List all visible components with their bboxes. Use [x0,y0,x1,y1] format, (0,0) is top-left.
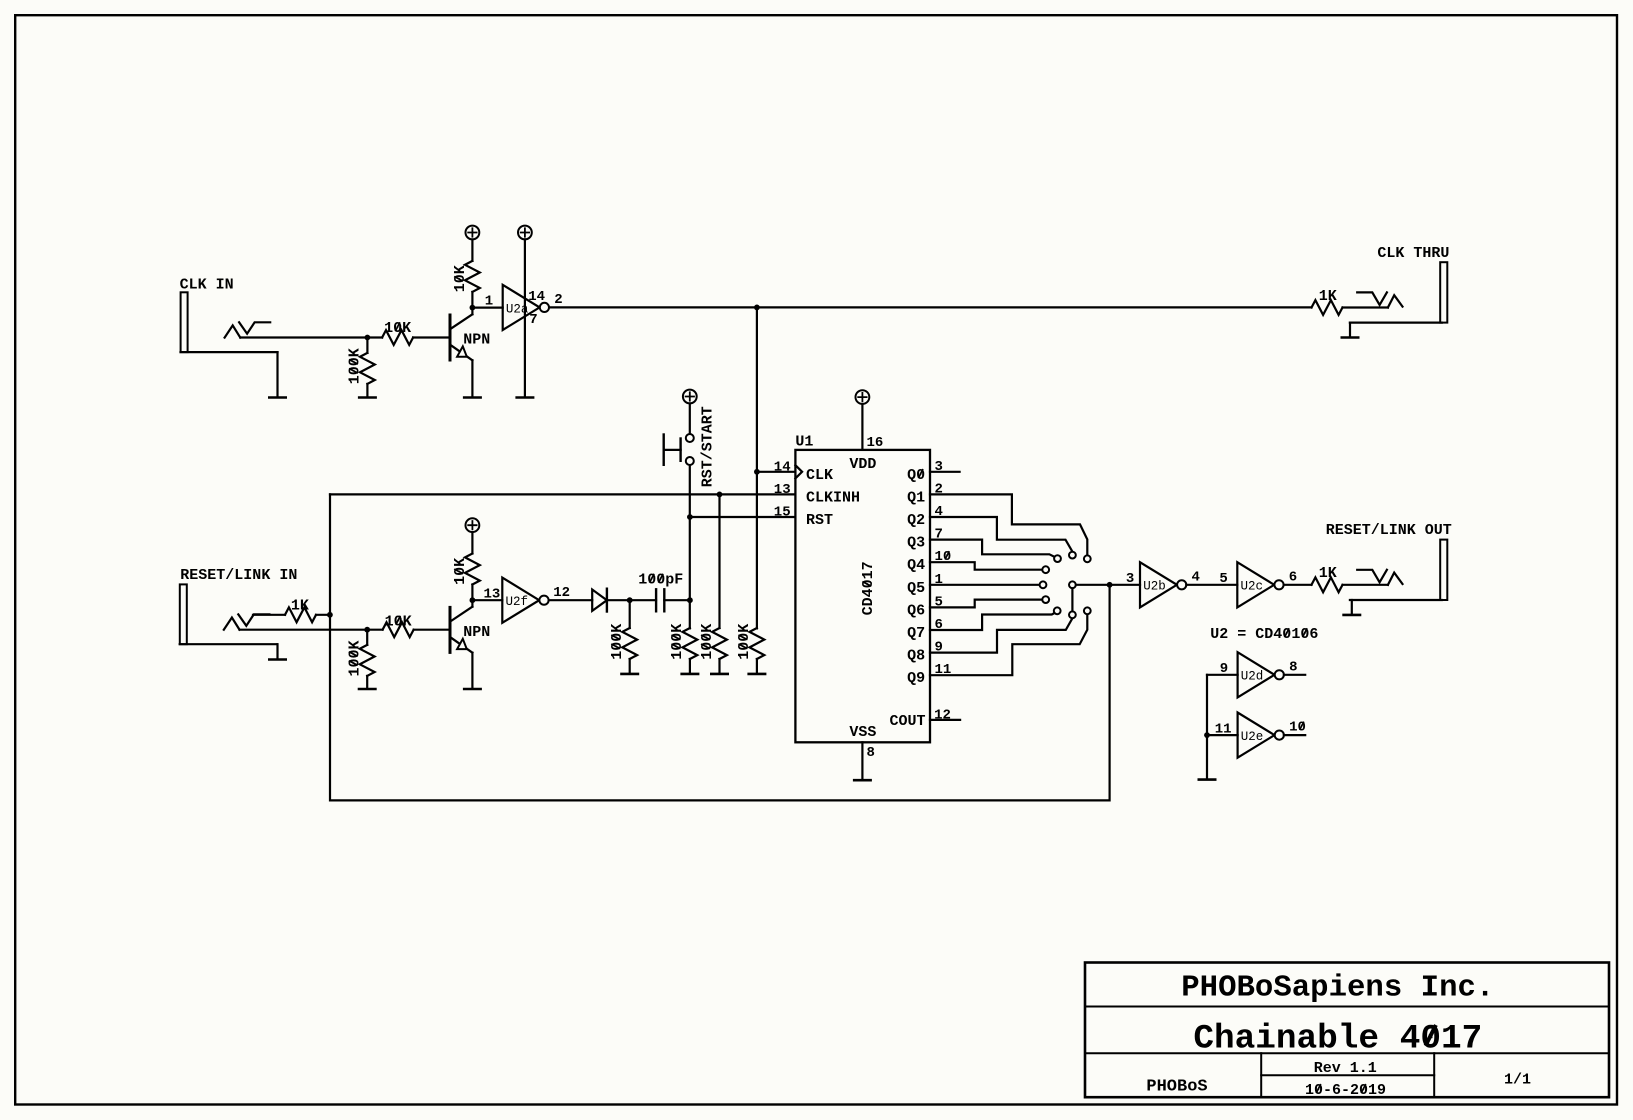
wire cap to RST node [664,599,690,601]
svg-text:Chainable 4017: Chainable 4017 [1193,1019,1482,1058]
svg-text:U2c: U2c [1241,580,1264,594]
svg-text:100K: 100K [347,348,364,384]
wire Q6 to pad [930,600,1042,608]
resistor 10K pullup (Q1 collector) [471,239,473,261]
wire Q8 to pad [930,618,1072,652]
svg-text:PHOBoSapiens Inc.: PHOBoSapiens Inc. [1181,971,1494,1006]
svg-text:100K: 100K [699,624,716,660]
svg-text:12: 12 [934,707,951,723]
op-amp U2c inverter [1237,562,1283,607]
junction switch/RST [687,514,693,520]
wire Q0 stub [930,471,960,473]
resistor 100K (CLKINH pulldown) [718,494,720,628]
junction CLK net to U1 clock branch [754,305,760,311]
node pad Q2 [1069,552,1076,559]
U1 pin 5 Q6 label [907,602,925,619]
wire select pad to U2b input [1076,584,1140,586]
svg-text:6: 6 [1289,569,1297,585]
wire Q2 emitter to ground [471,653,473,688]
switch S1 RST/START pushbutton [664,434,694,465]
connector J1 CLK IN jack [181,292,188,352]
wire Q1 to pad row [930,494,1087,555]
U1 clock wedge pin 14 [795,465,802,478]
junction node CLK-IN/100K [365,335,371,341]
wire U2d input [1207,674,1238,676]
wire CLK stub to U1 pin 14 [757,471,796,473]
wire Q5 to pad [930,584,1040,586]
svg-text:RST/START: RST/START [699,406,716,487]
svg-text:CD4017: CD4017 [860,561,877,615]
svg-text:PHOBoS: PHOBoS [1146,1077,1207,1096]
junction select/feedback [1107,582,1113,588]
svg-text:3: 3 [1126,571,1134,587]
resistor 100K (diode pulldown) [629,600,631,628]
svg-text:U2d: U2d [1241,670,1264,684]
junction U2e input [1204,732,1210,738]
U1 pin 1 Q5 label [907,580,925,597]
ground (RESET/LINK IN sleeve) [269,658,285,661]
op-amp U2b inverter [1140,562,1186,607]
svg-text:7: 7 [529,312,537,328]
wire RST to U1 pin 15 [690,516,796,518]
wire spare-gate inputs to ground [1206,675,1208,779]
svg-text:VDD: VDD [849,456,876,473]
wire diode to cap [607,599,656,601]
svg-text:Q4: Q4 [907,557,925,574]
svg-text:Q2: Q2 [907,512,925,529]
svg-text:Q3: Q3 [907,535,925,552]
svg-text:RST: RST [806,512,833,529]
connector J2 CLK THRU jack [1440,262,1447,322]
wire Q4 to pad [930,562,1042,570]
junction node R-IN/100K [364,627,370,633]
wire U2e output stub [1284,734,1305,736]
node pad select-bottom [1069,611,1076,618]
junction cap/RST rail [687,597,693,603]
ground (100K CLK IN) [359,396,375,399]
junction 1K to feedback rail [327,612,333,618]
svg-text:CLK IN: CLK IN [180,276,234,293]
power +V (U2a pin 14) [518,226,532,240]
title text sheet [1504,1072,1531,1089]
wire switch to RST rail / 100K [689,465,691,628]
wire Q3 to pad row [930,540,1055,557]
svg-text:CLKINH: CLKINH [806,489,860,506]
U1 power pin 8 VSS [861,742,863,779]
svg-text:100K: 100K [609,624,626,660]
wire U2a power pin 14 to ground pin 7 [524,239,526,396]
svg-text:U2 = CD40106: U2 = CD40106 [1210,626,1318,643]
node pad select-top [1069,581,1076,588]
wire CLK branch down to U1 CLK / 100K [756,307,758,628]
svg-text:VSS: VSS [849,724,876,741]
wire U2d output stub [1284,674,1305,676]
svg-text:Rev 1.1: Rev 1.1 [1314,1060,1377,1077]
ground (CLK THRU sleeve) [1342,336,1358,339]
ground (RESET/LINK OUT sleeve) [1344,614,1360,617]
svg-text:8: 8 [1289,659,1297,675]
U1 pin 6 Q7 label [907,625,925,642]
node pad Q7 [1054,607,1061,614]
node pad Q1 [1084,555,1091,562]
U1 pin 11 Q9 label [907,670,925,687]
wire Q7 to pad [930,613,1055,630]
junction CLKINH/100K [717,492,723,498]
node pad Q5 [1040,581,1047,588]
power +V (10K pullup bottom) [466,518,480,532]
op-amp U2a inverter [503,285,549,330]
svg-text:2: 2 [554,292,562,308]
svg-text:100K: 100K [347,640,364,676]
svg-text:COUT: COUT [889,713,925,730]
op-amp U2e inverter [1238,713,1284,758]
resistor 100K (CLK IN pulldown) [360,353,375,384]
ground (U2a pin 7) [517,396,533,399]
svg-text:Q9: Q9 [907,670,925,687]
U1 pin 12 COUT stub [930,719,960,721]
wire U2c out to 1K [1284,584,1312,586]
wire J4 sleeve to ground [1351,600,1353,614]
wire node to U2a input [472,307,502,309]
U1 pin 4 Q2 label [907,512,925,529]
node pad Q9 [1084,607,1091,614]
svg-text:12: 12 [553,585,570,601]
wire Q1 collector to node [471,308,473,315]
svg-text:Q6: Q6 [907,602,925,619]
resistor 1K (RESET/LINK OUT) [1312,577,1343,592]
capacitor C1 100pF [656,589,664,611]
ground (Q1 emitter) [464,396,480,399]
junction diode/100K [627,597,633,603]
svg-text:15: 15 [774,505,791,521]
wire U2f output to diode [549,599,593,601]
svg-text:100K: 100K [669,624,686,660]
transistor Q1 NPN [450,314,472,360]
wire select jumper [1071,588,1073,611]
ground (U1 VSS) [854,779,870,782]
svg-text:Q1: Q1 [907,489,925,506]
ground (100K R-IN) [359,688,375,691]
wire U2b out to U2c in [1186,584,1237,586]
feedback loop rail left/bottom/right [330,494,1110,800]
svg-text:NPN: NPN [463,332,490,349]
ground (Q2 emitter) [464,688,480,691]
svg-text:U2b: U2b [1143,580,1166,594]
svg-text:1K: 1K [1319,565,1337,582]
svg-text:CLK THRU: CLK THRU [1377,245,1449,262]
svg-text:1K: 1K [291,598,309,615]
junction node Q2 collector / U2f input [470,597,476,603]
title text company [1181,971,1494,1006]
svg-text:16: 16 [867,435,884,451]
junction node Q1 collector / U2a input [470,305,476,311]
ground (spare gates) [1199,778,1215,781]
resistor 10K (Q1 base) [382,330,413,345]
svg-text:NPN: NPN [463,624,490,641]
node pad Q3 [1054,555,1061,562]
svg-text:U2e: U2e [1241,730,1264,744]
svg-text:U2f: U2f [506,595,529,609]
svg-text:1K: 1K [1319,288,1337,305]
svg-text:13: 13 [483,586,500,602]
resistor 100K (R-IN pulldown) [360,645,375,676]
svg-text:Q5: Q5 [907,580,925,597]
junction CLK branch/pin14 [754,469,760,475]
title block frame [1085,963,1609,1098]
ground (100K CLKINH) [711,673,727,676]
ground (100K diode) [622,673,638,676]
title text project [1193,1019,1482,1058]
wire +V to switch [689,403,691,433]
node pad Q4 [1042,566,1049,573]
svg-text:13: 13 [774,482,791,498]
U1 pin 9 Q8 label [907,648,925,665]
resistor 100K (CLK pulldown) [750,628,765,659]
wire node to U2f input [472,599,502,601]
svg-text:100K: 100K [736,624,753,660]
U1 pin 2 Q1 label [907,489,925,506]
svg-text:RESET/LINK OUT: RESET/LINK OUT [1326,522,1452,539]
wire CLKINH feedback rail (net LINK) to U1 pin 13 [330,493,795,495]
title text revision [1314,1060,1377,1077]
title text author [1146,1077,1207,1096]
wire CLK IN tip to R base node [240,336,382,338]
wire Q2 collector to node [471,600,473,607]
op-amp U2f inverter [502,578,548,623]
resistor 1K (CLK THRU out) [1312,300,1343,315]
resistor 10K pullup (Q2 collector) [471,532,473,553]
svg-text:1/1: 1/1 [1504,1072,1531,1089]
U1 pin 3 Q0 label [907,467,925,484]
power +V (RST/START) [683,390,697,404]
wire J1 sleeve to ground [276,352,278,396]
wire Q2 to pad row [930,517,1072,552]
wire Q9 to pad [930,614,1087,675]
svg-text:1: 1 [485,294,493,310]
svg-text:Q8: Q8 [907,648,925,665]
U1 pin 7 Q3 label [907,535,925,552]
ground (100K RST) [682,673,698,676]
connector J3 RESET/LINK IN jack [180,584,187,644]
power +V (10K pullup top) [466,226,480,240]
svg-text:CLK: CLK [806,467,833,484]
svg-text:RESET/LINK IN: RESET/LINK IN [180,567,297,584]
resistor 10K (Q2 base) [383,622,414,637]
svg-text:Q7: Q7 [907,625,925,642]
wire RESET/LINK IN tip to R base node [240,629,383,631]
diode D1 [592,589,607,612]
svg-text:U1: U1 [795,433,813,450]
IC U1 CD4017 body [795,450,930,742]
node pad Q6 [1042,596,1049,603]
U1 power pin 16 VDD [856,390,870,404]
wire Q1 emitter to ground [471,360,473,396]
text U2 = CD40106 note [1210,626,1318,643]
connector J4 RESET/LINK OUT jack [1440,540,1447,600]
wire J3 sleeve to ground [276,644,278,658]
title text date [1305,1082,1386,1099]
transistor Q2 NPN [450,607,472,653]
wire U2a output to CLK THRU (net CLK) [549,306,1311,308]
wire U2e input [1207,734,1238,736]
svg-text:14: 14 [528,289,545,305]
U1 pin 10 Q4 label [907,557,925,574]
resistor 100K (RST pulldown) [683,628,698,659]
svg-text:14: 14 [774,459,791,475]
svg-text:5: 5 [1219,571,1227,587]
resistor 1K (link-normal switch) [253,614,285,616]
svg-text:4: 4 [1192,569,1200,585]
wire J2 sleeve to ground [1349,323,1351,337]
ground (CLK IN sleeve) [269,396,285,399]
op-amp U2d inverter [1238,652,1284,697]
svg-text:8: 8 [867,745,875,761]
ground (100K CLK) [749,673,765,676]
